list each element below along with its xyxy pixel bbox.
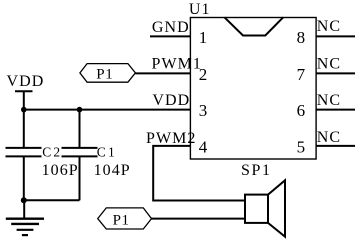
pin 1 wire (GND stub) bbox=[150, 35, 191, 37]
svg-text:NC: NC bbox=[317, 92, 341, 109]
svg-text:4: 4 bbox=[199, 137, 209, 156]
svg-text:1: 1 bbox=[199, 28, 209, 47]
svg-text:5: 5 bbox=[297, 137, 307, 156]
svg-text:VDD: VDD bbox=[152, 92, 190, 109]
svg-text:NC: NC bbox=[317, 55, 341, 72]
svg-text:GND: GND bbox=[152, 19, 190, 36]
connector P1 (lower) bbox=[98, 208, 152, 229]
VDD power symbol bbox=[15, 91, 33, 109]
svg-text:2: 2 bbox=[199, 65, 209, 84]
pin 5 wire bbox=[316, 145, 355, 147]
svg-text:P1: P1 bbox=[96, 67, 113, 83]
svg-text:7: 7 bbox=[297, 65, 307, 84]
ground symbol bbox=[6, 200, 44, 235]
speaker SP1 body bbox=[245, 195, 268, 223]
svg-text:8: 8 bbox=[297, 28, 307, 47]
junction dot (ground node) bbox=[21, 197, 27, 203]
junction dot (VDD rail / C2) bbox=[21, 107, 27, 113]
pin 4 wire (PWM2) routed to speaker bbox=[153, 146, 245, 201]
svg-text:VDD: VDD bbox=[7, 73, 45, 90]
ground net wire C1/C2 to ground bbox=[24, 199, 80, 201]
IC U1 body (SP1 sound chip) bbox=[190, 18, 316, 160]
U1 notch (pin-1 orientation mark) bbox=[224, 17, 283, 35]
svg-text:PWM1: PWM1 bbox=[152, 56, 202, 73]
svg-text:104P: 104P bbox=[94, 162, 131, 179]
capacitor C2 bbox=[6, 110, 42, 201]
svg-text:106P: 106P bbox=[42, 162, 79, 179]
svg-text:U1: U1 bbox=[189, 1, 211, 18]
svg-text:NC: NC bbox=[317, 18, 341, 35]
capacitor C1 bbox=[62, 110, 98, 201]
svg-text:6: 6 bbox=[297, 101, 307, 120]
svg-text:SP1: SP1 bbox=[241, 162, 272, 179]
junction dot (VDD rail / C1) bbox=[77, 107, 83, 113]
speaker SP1 horn bbox=[268, 180, 285, 236]
svg-text:NC: NC bbox=[317, 129, 341, 146]
svg-text:C1: C1 bbox=[97, 145, 117, 160]
wire P1 to speaker bbox=[152, 218, 246, 220]
pin 7 wire bbox=[316, 72, 355, 74]
svg-text:P1: P1 bbox=[113, 212, 130, 228]
pin 2 wire (PWM1) bbox=[135, 72, 190, 74]
pin 6 wire bbox=[316, 109, 355, 111]
svg-text:PWM2: PWM2 bbox=[146, 130, 196, 147]
svg-text:C2: C2 bbox=[42, 145, 62, 160]
VDD rail wire to pin 3 bbox=[24, 109, 191, 111]
svg-text:3: 3 bbox=[199, 101, 209, 120]
connector P1 (upper) bbox=[80, 64, 135, 83]
pin 8 wire bbox=[316, 35, 355, 37]
